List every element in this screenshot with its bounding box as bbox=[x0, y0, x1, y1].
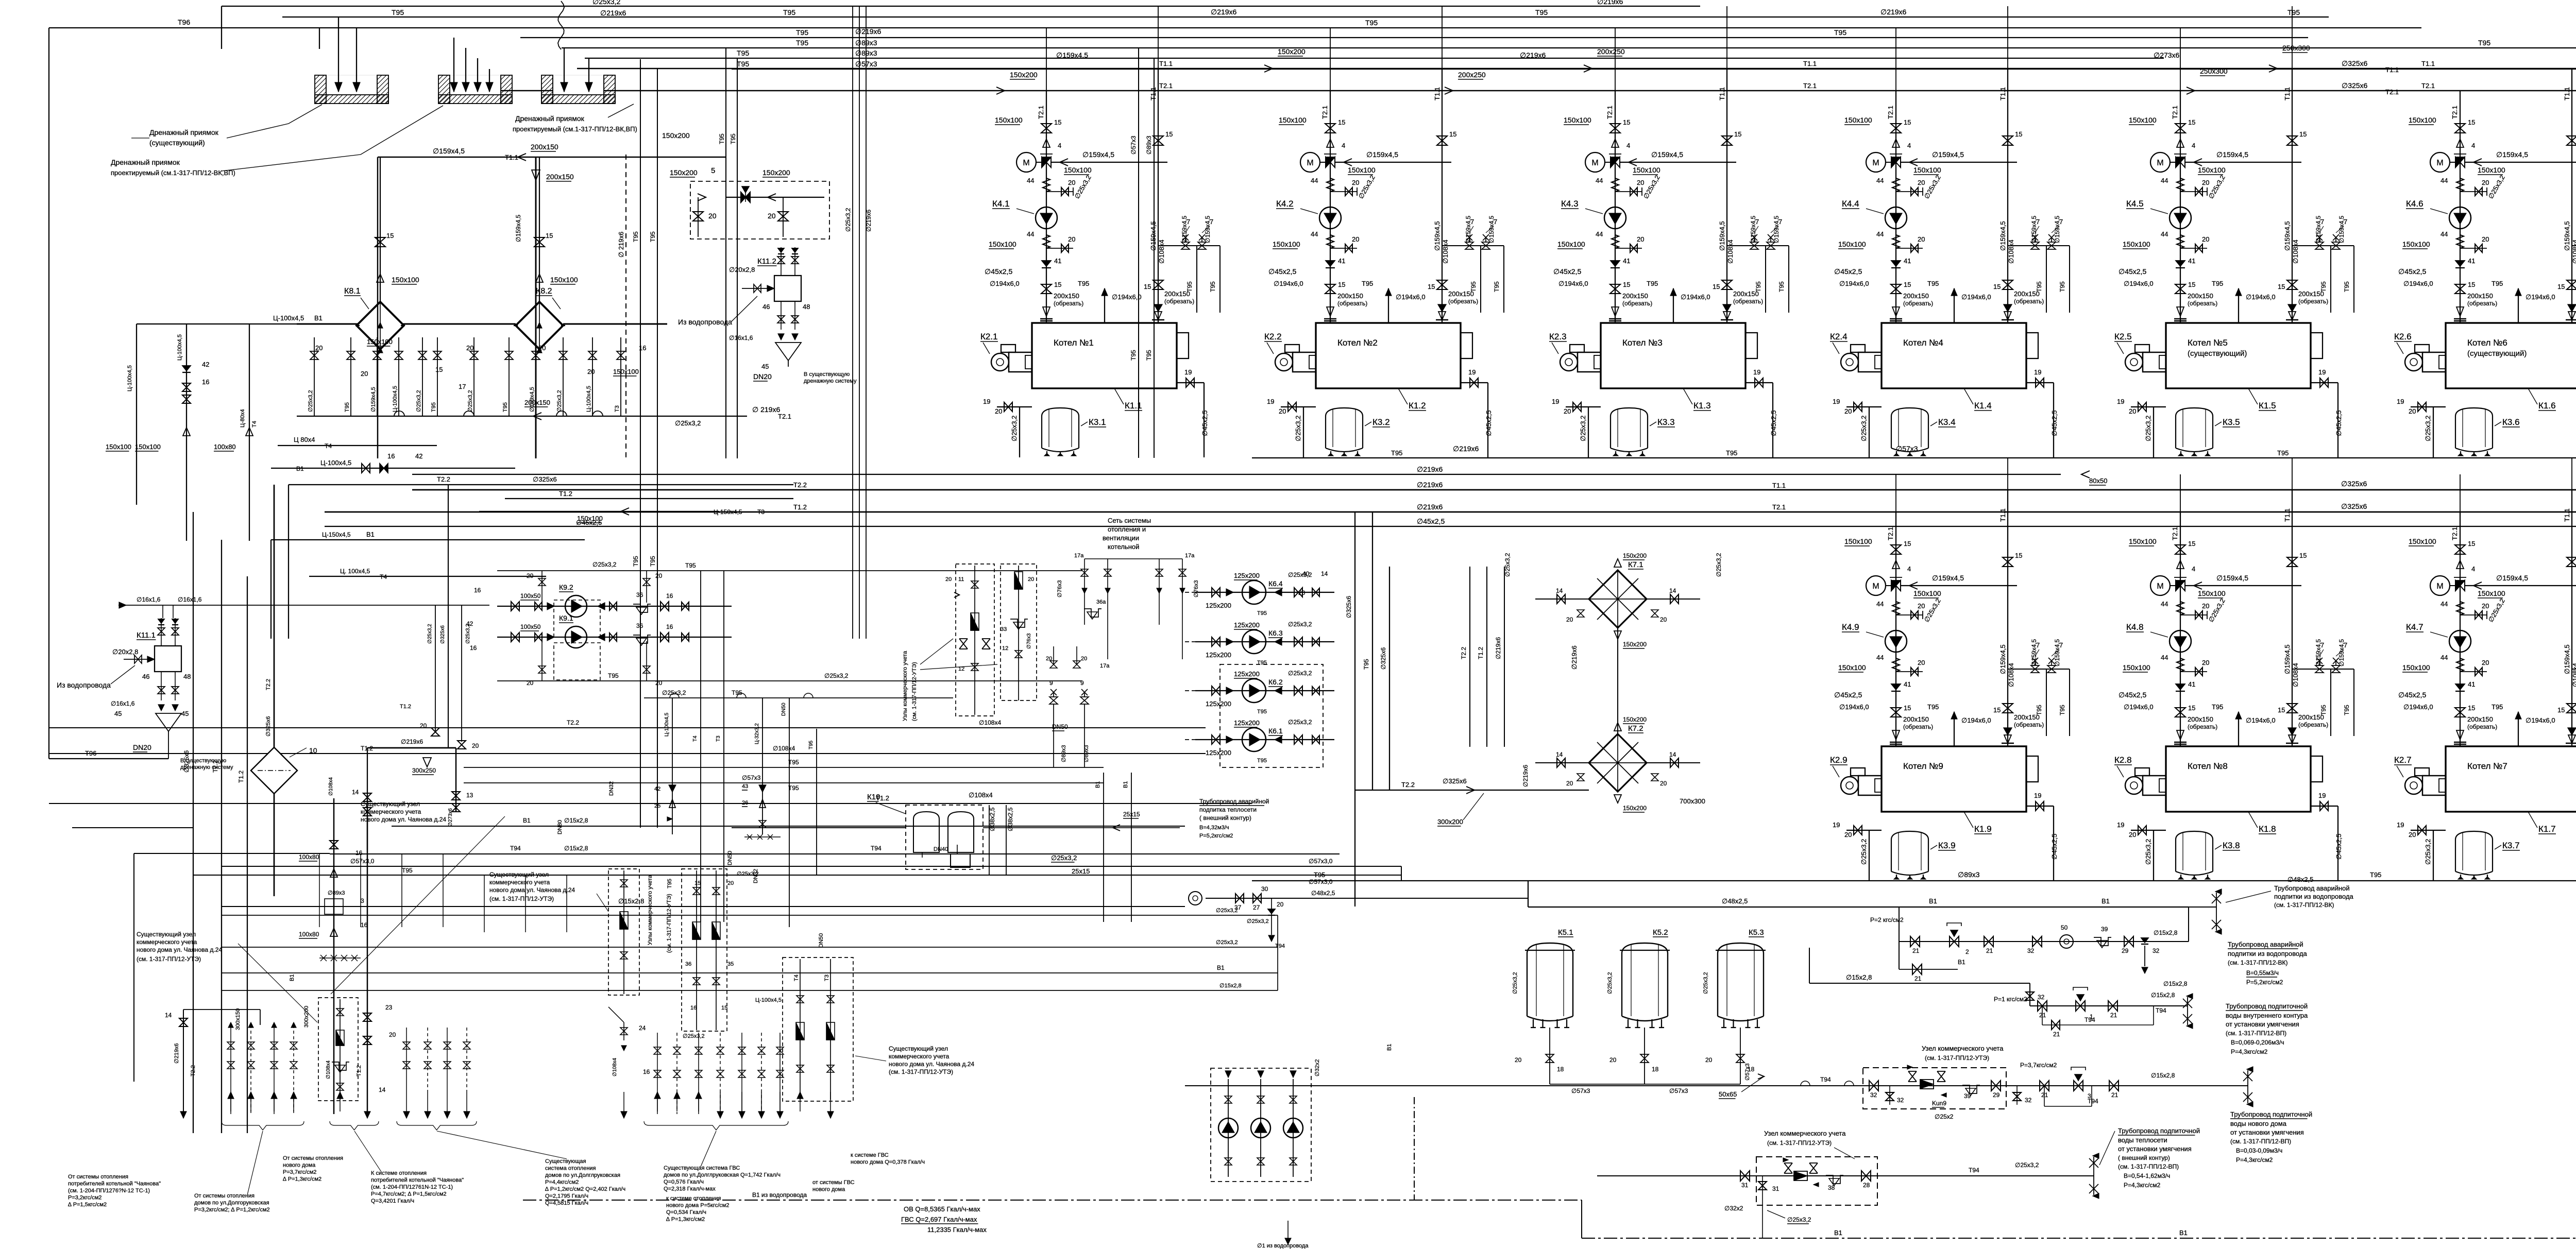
svg-text:150x100: 150x100 bbox=[2123, 240, 2150, 248]
svg-text:∅159x4,5: ∅159x4,5 bbox=[2338, 639, 2345, 666]
svg-text:12: 12 bbox=[1002, 645, 1008, 652]
svg-text:(обрезать): (обрезать) bbox=[2188, 723, 2217, 730]
svg-text:200x150: 200x150 bbox=[1622, 292, 1648, 300]
svg-text:150x100: 150x100 bbox=[613, 368, 639, 375]
svg-text:Т3: Т3 bbox=[614, 405, 620, 412]
svg-text:нового дома ул. Чаянова д.24: нового дома ул. Чаянова д.24 bbox=[137, 946, 222, 953]
svg-text:25: 25 bbox=[654, 803, 660, 809]
svg-text:Существующая: Существующая bbox=[545, 1158, 586, 1165]
svg-text:Т95: Т95 bbox=[2036, 705, 2043, 715]
svg-text:(см. 1-204-ПП/1276?N-12 ТС-1): (см. 1-204-ПП/1276?N-12 ТС-1) bbox=[68, 1188, 150, 1194]
svg-text:∅32x2: ∅32x2 bbox=[1724, 1205, 1743, 1212]
svg-text:40: 40 bbox=[1302, 570, 1310, 577]
svg-text:21: 21 bbox=[1912, 947, 1920, 954]
svg-text:∅159x4,5: ∅159x4,5 bbox=[1056, 51, 1088, 59]
svg-text:150x100: 150x100 bbox=[106, 443, 131, 451]
svg-text:∅325x6: ∅325x6 bbox=[2342, 59, 2368, 67]
svg-text:100x80: 100x80 bbox=[214, 443, 236, 451]
svg-text:∅194x6,0: ∅194x6,0 bbox=[2246, 716, 2276, 724]
svg-text:∅25x3,2: ∅25x3,2 bbox=[1860, 839, 1868, 865]
svg-text:Т4: Т4 bbox=[793, 974, 800, 981]
svg-text:∅25x3,2: ∅25x3,2 bbox=[1216, 908, 1238, 914]
svg-text:отопления и: отопления и bbox=[1108, 525, 1146, 533]
svg-text:200x150: 200x150 bbox=[2467, 292, 2493, 300]
svg-text:К2.4: К2.4 bbox=[1830, 332, 1848, 341]
svg-text:∅ 219x6: ∅ 219x6 bbox=[752, 405, 780, 414]
svg-text:(обрезать): (обрезать) bbox=[2298, 298, 2328, 305]
svg-text:нового дома Р=5кгс/см2: нового дома Р=5кгс/см2 bbox=[666, 1203, 729, 1209]
svg-text:38: 38 bbox=[1828, 1184, 1835, 1191]
svg-text:20: 20 bbox=[1637, 179, 1644, 186]
svg-text:∅219x6: ∅219x6 bbox=[1417, 503, 1443, 511]
svg-text:Т2.1: Т2.1 bbox=[2171, 106, 2179, 119]
svg-text:(см. 1-317-ПП/12-ВК): (см. 1-317-ПП/12-ВК) bbox=[2274, 901, 2334, 909]
svg-text:нового дома ул. Чаянова д.24: нового дома ул. Чаянова д.24 bbox=[889, 1060, 974, 1068]
svg-text:подпитки из водопровода: подпитки из водопровода bbox=[2274, 893, 2354, 900]
svg-text:Т2.1: Т2.1 bbox=[1887, 527, 1894, 540]
svg-text:Т95: Т95 bbox=[649, 556, 656, 567]
svg-text:∅45x2,5: ∅45x2,5 bbox=[2119, 691, 2146, 699]
svg-text:4: 4 bbox=[2471, 565, 2475, 573]
svg-text:44: 44 bbox=[1876, 654, 1884, 661]
svg-text:Т95: Т95 bbox=[1362, 280, 1373, 287]
svg-text:Т95: Т95 bbox=[2036, 281, 2043, 292]
svg-text:20: 20 bbox=[315, 344, 323, 352]
svg-text:(см. 1-204-ПП/12761N-12 ТС-1): (см. 1-204-ПП/12761N-12 ТС-1) bbox=[371, 1184, 453, 1190]
svg-text:Т1.1: Т1.1 bbox=[2563, 87, 2571, 100]
svg-text:В1 из водопровода: В1 из водопровода bbox=[752, 1191, 807, 1199]
svg-text:В1: В1 bbox=[1958, 959, 1965, 966]
svg-text:(обрезать): (обрезать) bbox=[2014, 298, 2044, 305]
svg-text:К4.2: К4.2 bbox=[1276, 199, 1294, 209]
svg-text:К1.5: К1.5 bbox=[2259, 401, 2276, 410]
svg-text:∅325x6: ∅325x6 bbox=[265, 716, 272, 737]
svg-text:200x150: 200x150 bbox=[531, 143, 558, 151]
svg-text:20: 20 bbox=[2202, 179, 2209, 186]
svg-text:∅76x3: ∅76x3 bbox=[1057, 580, 1063, 597]
svg-text:∅45x2,5: ∅45x2,5 bbox=[1417, 517, 1445, 525]
svg-text:(обрезать): (обрезать) bbox=[2014, 721, 2044, 728]
svg-text:∅25x3,2: ∅25x3,2 bbox=[1247, 918, 1269, 925]
svg-text:Т95: Т95 bbox=[796, 39, 808, 47]
svg-text:∅159x4,5: ∅159x4,5 bbox=[1465, 216, 1472, 243]
svg-text:К3.3: К3.3 bbox=[1657, 417, 1675, 427]
svg-text:Т95: Т95 bbox=[608, 672, 619, 679]
svg-text:200x150: 200x150 bbox=[1054, 292, 1079, 300]
svg-text:∅194x6,0: ∅194x6,0 bbox=[2403, 280, 2433, 287]
svg-text:∅159x4,5: ∅159x4,5 bbox=[2216, 150, 2248, 159]
svg-text:(см. 1-317-ПП/12-УТЭ): (см. 1-317-ПП/12-УТЭ) bbox=[137, 955, 201, 963]
svg-text:20: 20 bbox=[1515, 1056, 1522, 1064]
svg-text:∅159x4,5: ∅159x4,5 bbox=[2054, 639, 2061, 666]
svg-text:Р=3,7кгс/см2: Р=3,7кгс/см2 bbox=[2020, 1062, 2057, 1069]
svg-text:Т1.1: Т1.1 bbox=[2421, 60, 2435, 67]
svg-text:∅159x4,5: ∅159x4,5 bbox=[1366, 150, 1398, 159]
svg-text:DN50: DN50 bbox=[1052, 723, 1068, 730]
svg-text:В=0,069-0,206м3/ч: В=0,069-0,206м3/ч bbox=[2231, 1039, 2284, 1046]
svg-text:4: 4 bbox=[1342, 142, 1345, 149]
svg-text:45: 45 bbox=[761, 363, 769, 370]
svg-text:Т2.2: Т2.2 bbox=[567, 719, 579, 726]
svg-text:∅219x6: ∅219x6 bbox=[600, 9, 626, 17]
svg-text:подпитки из водопровода: подпитки из водопровода bbox=[2228, 950, 2308, 957]
svg-text:К3.4: К3.4 bbox=[1938, 417, 1956, 427]
svg-text:23: 23 bbox=[385, 1004, 393, 1011]
svg-text:150x200: 150x200 bbox=[662, 131, 690, 140]
svg-text:16: 16 bbox=[666, 592, 673, 600]
svg-text:∅1 из водопровода: ∅1 из водопровода bbox=[1257, 1243, 1309, 1249]
svg-text:∅108x4: ∅108x4 bbox=[2007, 239, 2015, 264]
svg-text:41: 41 bbox=[1338, 257, 1345, 265]
svg-text:Р=4,4кгс/см2: Р=4,4кгс/см2 bbox=[545, 1179, 579, 1186]
svg-text:М: М bbox=[2436, 159, 2443, 167]
svg-text:∅159x4,5: ∅159x4,5 bbox=[1932, 574, 1964, 582]
svg-text:∅45x2,5: ∅45x2,5 bbox=[2398, 267, 2426, 276]
svg-text:Т94: Т94 bbox=[1275, 943, 1285, 949]
svg-text:20: 20 bbox=[655, 572, 663, 579]
svg-text:11,2335 Гкал/ч-мах: 11,2335 Гкал/ч-мах bbox=[927, 1226, 987, 1234]
svg-text:∅45x2,5: ∅45x2,5 bbox=[1201, 410, 1209, 436]
svg-text:Т95: Т95 bbox=[1927, 280, 1939, 287]
svg-text:39: 39 bbox=[2101, 926, 2108, 933]
svg-text:Т1.2: Т1.2 bbox=[876, 794, 889, 802]
svg-text:К4.8: К4.8 bbox=[2126, 622, 2144, 632]
svg-text:∅194x6,0: ∅194x6,0 bbox=[990, 280, 1020, 287]
svg-text:К1.1: К1.1 bbox=[1125, 401, 1142, 410]
svg-text:16: 16 bbox=[474, 587, 481, 594]
svg-text:9: 9 bbox=[1049, 679, 1053, 687]
svg-text:К1.8: К1.8 bbox=[2259, 824, 2276, 834]
svg-text:44: 44 bbox=[1876, 230, 1884, 238]
svg-text:∅219x6: ∅219x6 bbox=[865, 210, 872, 232]
svg-text:15: 15 bbox=[1904, 118, 1911, 126]
svg-text:(обрезать): (обрезать) bbox=[2188, 300, 2217, 307]
svg-text:Т94: Т94 bbox=[1969, 1167, 1979, 1174]
svg-text:36: 36 bbox=[636, 591, 643, 598]
svg-text:Т2.2: Т2.2 bbox=[1460, 647, 1467, 659]
svg-text:20: 20 bbox=[2482, 179, 2489, 186]
svg-text:19: 19 bbox=[2117, 821, 2124, 829]
svg-text:Т95: Т95 bbox=[431, 402, 437, 412]
svg-text:система отопления: система отопления bbox=[545, 1166, 596, 1172]
svg-text:В1: В1 bbox=[1834, 1229, 1842, 1237]
svg-text:М: М bbox=[2157, 582, 2163, 591]
svg-text:29: 29 bbox=[2122, 947, 2129, 954]
svg-text:Трубопровод аварийной: Трубопровод аварийной bbox=[2228, 940, 2303, 948]
svg-text:Т95: Т95 bbox=[2320, 705, 2327, 715]
svg-text:К4.4: К4.4 bbox=[1842, 199, 1859, 209]
svg-text:Т95: Т95 bbox=[1186, 281, 1193, 292]
svg-text:44: 44 bbox=[1027, 177, 1034, 184]
svg-text:домов по ул.Долглруковская Q=: домов по ул.Долглруковская Q=1,742 Гкал/… bbox=[664, 1172, 781, 1178]
svg-text:В1: В1 bbox=[2179, 1229, 2188, 1237]
svg-text:∅32x2: ∅32x2 bbox=[1314, 1059, 1320, 1076]
svg-text:28: 28 bbox=[1863, 1182, 1870, 1189]
svg-text:42: 42 bbox=[654, 786, 660, 792]
svg-text:100x80: 100x80 bbox=[299, 853, 319, 861]
svg-text:К2.7: К2.7 bbox=[2394, 755, 2412, 765]
svg-text:150x100: 150x100 bbox=[2129, 116, 2157, 124]
svg-text:Трубопровод подпиточной: Трубопровод подпиточной bbox=[2226, 1002, 2308, 1010]
svg-text:Т1.2: Т1.2 bbox=[793, 503, 807, 511]
svg-text:(см. 1-317-ПП/12-ВП): (см. 1-317-ПП/12-ВП) bbox=[2118, 1163, 2179, 1170]
svg-text:30: 30 bbox=[1261, 885, 1268, 893]
svg-text:В1: В1 bbox=[366, 531, 375, 538]
svg-text:DN20: DN20 bbox=[133, 743, 151, 751]
svg-text:К5.3: К5.3 bbox=[1749, 928, 1764, 937]
svg-text:∅48x2,5: ∅48x2,5 bbox=[2287, 876, 2313, 883]
svg-text:В существующую: В существующую bbox=[804, 371, 850, 378]
svg-text:Т95: Т95 bbox=[732, 689, 742, 696]
svg-text:∅15x2,8: ∅15x2,8 bbox=[2154, 929, 2178, 936]
svg-text:15: 15 bbox=[2468, 118, 2475, 126]
svg-text:150x200: 150x200 bbox=[670, 168, 698, 177]
svg-text:150x100: 150x100 bbox=[2129, 537, 2157, 545]
svg-text:19: 19 bbox=[1753, 368, 1760, 376]
svg-text:Т95: Т95 bbox=[2059, 705, 2066, 715]
svg-text:∅25x3,2: ∅25x3,2 bbox=[2144, 416, 2152, 441]
svg-text:19: 19 bbox=[1184, 368, 1192, 376]
svg-text:Т1.2: Т1.2 bbox=[238, 771, 245, 783]
svg-text:К1.6: К1.6 bbox=[2538, 401, 2556, 410]
svg-text:∅159x4,5: ∅159x4,5 bbox=[370, 387, 377, 412]
svg-text:Т2.1: Т2.1 bbox=[2451, 527, 2459, 540]
svg-text:25x15: 25x15 bbox=[1072, 867, 1090, 875]
svg-text:вентиляции: вентиляции bbox=[1103, 534, 1139, 542]
svg-text:Ц-80x4: Ц-80x4 bbox=[240, 409, 246, 427]
svg-text:К4.5: К4.5 bbox=[2126, 199, 2144, 209]
svg-text:∅159x4,5: ∅159x4,5 bbox=[2563, 644, 2571, 674]
svg-text:Т95: Т95 bbox=[1257, 660, 1267, 666]
svg-text:(см. 1-317-ПП/12-УТЭ): (см. 1-317-ПП/12-УТЭ) bbox=[889, 1068, 953, 1075]
svg-text:Р=3,2кгс/см2: Р=3,2кгс/см2 bbox=[68, 1195, 101, 1201]
svg-text:Т95: Т95 bbox=[632, 231, 639, 242]
svg-text:Р=4,3кгс/см2: Р=4,3кгс/см2 bbox=[2124, 1182, 2161, 1189]
svg-text:20: 20 bbox=[2202, 602, 2209, 610]
svg-text:∅159x4,5: ∅159x4,5 bbox=[1932, 150, 1964, 159]
svg-text:41: 41 bbox=[2468, 257, 2475, 265]
svg-text:Kun9: Kun9 bbox=[1932, 1100, 1946, 1107]
svg-text:25x15: 25x15 bbox=[1123, 811, 1140, 818]
svg-text:В1: В1 bbox=[1929, 897, 1937, 905]
svg-text:(обрезать): (обрезать) bbox=[1903, 723, 1933, 730]
svg-text:Ц-100х4,5: Ц-100х4,5 bbox=[755, 997, 782, 1003]
svg-text:ГВС Q=2,697 Гкал/ч-мах: ГВС Q=2,697 Гкал/ч-мах bbox=[901, 1216, 977, 1223]
svg-text:45: 45 bbox=[181, 710, 189, 717]
svg-text:19: 19 bbox=[1267, 398, 1274, 405]
svg-text:проектируемый (см.1-317-ПП/12-: проектируемый (см.1-317-ПП/12-ВК,ВП) bbox=[513, 125, 637, 133]
svg-text:Ц-100х4,5: Ц-100х4,5 bbox=[664, 712, 670, 737]
svg-text:18: 18 bbox=[1557, 1066, 1564, 1073]
svg-text:В существующую: В существующую bbox=[180, 758, 226, 764]
svg-text:К11.2: К11.2 bbox=[757, 257, 776, 266]
svg-text:∅159x4,5: ∅159x4,5 bbox=[2216, 574, 2248, 582]
svg-text:100x50: 100x50 bbox=[520, 623, 541, 630]
svg-text:20: 20 bbox=[1352, 235, 1359, 243]
svg-text:200x150: 200x150 bbox=[524, 399, 550, 406]
svg-text:DN40: DN40 bbox=[934, 846, 948, 852]
svg-text:32: 32 bbox=[1897, 1097, 1904, 1104]
svg-text:подпитка теплосети: подпитка теплосети bbox=[1199, 806, 1257, 813]
svg-text:150x200: 150x200 bbox=[1278, 47, 1306, 56]
svg-text:150x100: 150x100 bbox=[1633, 166, 1660, 174]
svg-text:Т95: Т95 bbox=[2212, 703, 2223, 711]
svg-text:К4.3: К4.3 bbox=[1561, 199, 1579, 209]
svg-text:∅25x3,2: ∅25x3,2 bbox=[1579, 416, 1587, 441]
svg-text:15: 15 bbox=[1054, 118, 1061, 126]
svg-text:150x100: 150x100 bbox=[1844, 537, 1872, 545]
svg-text:Т95: Т95 bbox=[2343, 281, 2350, 292]
svg-text:300x200: 300x200 bbox=[1437, 818, 1463, 826]
svg-text:20: 20 bbox=[1918, 659, 1925, 666]
svg-text:Q=0,534 Гкал/ч: Q=0,534 Гкал/ч bbox=[666, 1209, 706, 1216]
svg-text:∅159x4,5: ∅159x4,5 bbox=[1181, 216, 1188, 243]
svg-text:(существующий): (существующий) bbox=[149, 139, 205, 147]
svg-text:К2.8: К2.8 bbox=[2114, 755, 2132, 765]
svg-text:Т2.1: Т2.1 bbox=[2385, 88, 2399, 96]
svg-text:20: 20 bbox=[389, 1031, 396, 1038]
svg-text:Т95: Т95 bbox=[344, 402, 350, 412]
svg-text:М: М bbox=[2436, 582, 2443, 591]
svg-text:150x100: 150x100 bbox=[1913, 166, 1941, 174]
svg-text:Т2.1: Т2.1 bbox=[1772, 503, 1786, 511]
svg-text:М: М bbox=[1307, 159, 1313, 167]
svg-text:К5.1: К5.1 bbox=[1558, 928, 1573, 937]
svg-text:Т1.1: Т1.1 bbox=[1803, 60, 1817, 67]
svg-text:Т94: Т94 bbox=[2156, 1007, 2166, 1014]
svg-text:125x200: 125x200 bbox=[1234, 572, 1260, 579]
svg-text:∅15x2,8: ∅15x2,8 bbox=[2163, 980, 2188, 987]
svg-text:∅25x3,2: ∅25x3,2 bbox=[2424, 839, 2432, 865]
svg-text:∅325x6: ∅325x6 bbox=[2341, 502, 2367, 510]
svg-text:Т95: Т95 bbox=[1145, 350, 1153, 361]
svg-text:В=4,32м3/ч: В=4,32м3/ч bbox=[1199, 825, 1229, 831]
svg-text:DN80: DN80 bbox=[557, 820, 563, 834]
svg-text:20: 20 bbox=[1068, 179, 1075, 186]
svg-text:19: 19 bbox=[2034, 792, 2041, 799]
svg-text:20: 20 bbox=[2409, 831, 2416, 839]
svg-text:300x200: 300x200 bbox=[303, 1006, 310, 1028]
svg-text:150x100: 150x100 bbox=[1913, 589, 1941, 597]
svg-text:∅194x6,0: ∅194x6,0 bbox=[2246, 293, 2276, 301]
svg-text:Т1.1: Т1.1 bbox=[1999, 508, 2007, 522]
svg-text:20: 20 bbox=[1609, 1056, 1617, 1064]
svg-text:150x200: 150x200 bbox=[1623, 716, 1647, 723]
svg-text:20: 20 bbox=[361, 370, 368, 378]
svg-text:Q=4,5815 Гкал/ч: Q=4,5815 Гкал/ч bbox=[545, 1200, 588, 1206]
svg-text:∅16x1,6: ∅16x1,6 bbox=[111, 700, 135, 707]
svg-text:Котел №9: Котел №9 bbox=[1903, 761, 1943, 771]
svg-text:4: 4 bbox=[1907, 142, 1911, 149]
svg-text:от системы ГВС: от системы ГВС bbox=[812, 1179, 855, 1186]
svg-text:Т2.2: Т2.2 bbox=[1401, 781, 1415, 789]
svg-text:Т95: Т95 bbox=[1078, 280, 1089, 287]
svg-text:DN50: DN50 bbox=[727, 851, 733, 865]
svg-text:150x100: 150x100 bbox=[1273, 240, 1300, 248]
svg-text:∅159x4,5: ∅159x4,5 bbox=[2054, 216, 2061, 243]
svg-text:Т3: Т3 bbox=[824, 974, 830, 981]
svg-text:15: 15 bbox=[1428, 283, 1435, 290]
svg-text:200x150: 200x150 bbox=[546, 173, 574, 181]
svg-text:Дренажный приямок: Дренажный приямок bbox=[515, 114, 585, 123]
svg-text:50: 50 bbox=[2061, 924, 2068, 931]
svg-text:∅76x3: ∅76x3 bbox=[1193, 580, 1199, 597]
svg-text:домов по ул.Долглруковская: домов по ул.Долглруковская bbox=[545, 1172, 620, 1178]
svg-text:В1: В1 bbox=[296, 465, 304, 472]
svg-text:∅108x4: ∅108x4 bbox=[2571, 663, 2576, 687]
svg-text:Ц-100x4,5: Ц-100x4,5 bbox=[586, 386, 592, 412]
svg-text:150x100: 150x100 bbox=[2402, 663, 2430, 672]
svg-text:41: 41 bbox=[1623, 257, 1630, 265]
svg-text:∅45x2,5: ∅45x2,5 bbox=[985, 267, 1012, 276]
svg-text:125x200: 125x200 bbox=[1234, 719, 1260, 727]
svg-text:К4.1: К4.1 bbox=[992, 199, 1010, 209]
svg-text:к системе ГВС: к системе ГВС bbox=[851, 1152, 889, 1158]
svg-text:нового дома ул. Чаянова д.24: нового дома ул. Чаянова д.24 bbox=[489, 886, 575, 894]
svg-text:Т95: Т95 bbox=[783, 8, 795, 16]
svg-text:Т94: Т94 bbox=[2084, 1016, 2095, 1023]
svg-text:44: 44 bbox=[2161, 230, 2168, 238]
svg-text:46: 46 bbox=[762, 303, 770, 311]
svg-text:20: 20 bbox=[1918, 602, 1925, 610]
svg-text:44: 44 bbox=[1311, 177, 1318, 184]
svg-text:44: 44 bbox=[2441, 654, 2448, 661]
svg-text:∅25x3,2: ∅25x3,2 bbox=[662, 689, 686, 696]
svg-text:17а: 17а bbox=[1100, 663, 1110, 669]
svg-text:15: 15 bbox=[546, 232, 553, 239]
svg-text:(см. 1-317-ПП/12-ВП): (см. 1-317-ПП/12-ВП) bbox=[2230, 1138, 2291, 1145]
svg-text:Т95: Т95 bbox=[1927, 703, 1939, 711]
svg-text:∅57x3: ∅57x3 bbox=[1669, 1087, 1688, 1094]
svg-text:К1.2: К1.2 bbox=[1409, 401, 1426, 410]
svg-text:∅194x6,0: ∅194x6,0 bbox=[2526, 716, 2555, 724]
svg-text:Т1.2: Т1.2 bbox=[1477, 647, 1484, 659]
svg-text:К2.1: К2.1 bbox=[980, 332, 998, 341]
svg-text:∅108x4: ∅108x4 bbox=[1442, 239, 1449, 264]
svg-text:к системе отопления: к системе отопления bbox=[666, 1195, 721, 1202]
svg-text:∅57x3: ∅57x3 bbox=[1571, 1087, 1590, 1094]
svg-text:В=0,03-0,09м3/ч: В=0,03-0,09м3/ч bbox=[2236, 1147, 2282, 1154]
svg-text:150x100: 150x100 bbox=[2402, 240, 2430, 248]
svg-text:Т95: Т95 bbox=[1391, 449, 1402, 457]
svg-text:DN50: DN50 bbox=[818, 933, 824, 948]
svg-text:19: 19 bbox=[2397, 821, 2404, 829]
svg-text:125x200: 125x200 bbox=[1206, 651, 1231, 659]
svg-text:В1: В1 bbox=[1217, 964, 1225, 971]
svg-text:Т1.1: Т1.1 bbox=[1772, 482, 1786, 489]
svg-text:Т1.2: Т1.2 bbox=[400, 704, 411, 710]
svg-text:15: 15 bbox=[1713, 283, 1720, 290]
svg-text:∅325x6: ∅325x6 bbox=[2342, 81, 2368, 90]
svg-text:К1.3: К1.3 bbox=[1693, 401, 1711, 410]
svg-text:Существующий узел: Существующий узел bbox=[489, 871, 549, 878]
svg-text:∅159x4,5: ∅159x4,5 bbox=[1773, 216, 1780, 243]
svg-text:36: 36 bbox=[685, 961, 691, 967]
svg-text:Р=3,2кгс/см2; ∆ Р=1,2кгс/см2: Р=3,2кгс/см2; ∆ Р=1,2кгс/см2 bbox=[194, 1207, 270, 1213]
svg-text:∅45x2,5: ∅45x2,5 bbox=[1553, 267, 1581, 276]
svg-text:11: 11 bbox=[958, 576, 964, 583]
svg-text:(обрезать): (обрезать) bbox=[2467, 723, 2497, 730]
svg-text:Т95: Т95 bbox=[632, 556, 639, 567]
svg-text:∅25x3,2: ∅25x3,2 bbox=[592, 561, 617, 568]
svg-text:Т4: Т4 bbox=[692, 735, 698, 742]
svg-text:Ц 80x4: Ц 80x4 bbox=[294, 436, 315, 443]
svg-text:Т1.1: Т1.1 bbox=[1149, 87, 1157, 100]
svg-text:44: 44 bbox=[1876, 600, 1884, 608]
svg-text:150x100: 150x100 bbox=[1279, 116, 1307, 124]
svg-text:Т95: Т95 bbox=[1493, 281, 1500, 292]
svg-text:∅108x4: ∅108x4 bbox=[2292, 239, 2299, 264]
